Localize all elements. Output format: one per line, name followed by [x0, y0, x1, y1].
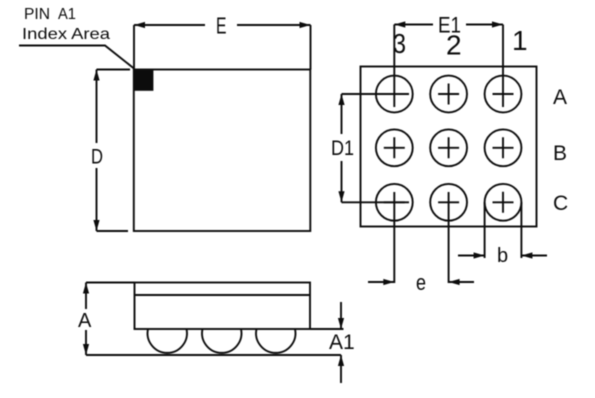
- ball A3 (top-left): [376, 76, 413, 113]
- svg-text:2: 2: [446, 30, 462, 61]
- dimension D1 arrow down: [338, 191, 344, 202]
- ball C2: [430, 184, 467, 221]
- ball C3 cross horizontal arm: [384, 201, 405, 203]
- ball A1 (top-right): [485, 76, 522, 113]
- ball C2 cross horizontal arm: [438, 201, 459, 203]
- ball C1 (bottom-right): [485, 184, 522, 221]
- dimension e arrow left (pointing right): [383, 279, 394, 285]
- dimension A1 arrow up (at seating plane): [338, 355, 344, 366]
- svg-text:A: A: [553, 86, 567, 109]
- dimension E arrow left: [134, 22, 145, 28]
- dimension b arrow left (pointing right): [474, 252, 485, 258]
- ball A2 cross: [438, 84, 459, 105]
- side view ball 1: [148, 329, 187, 353]
- dimension A arrow down: [83, 344, 89, 355]
- ball B1: [485, 129, 522, 166]
- svg-text:3: 3: [393, 28, 406, 59]
- dimension D1 line lower segment: [341, 161, 343, 202]
- dimension E extension line left: [133, 25, 135, 70]
- side view ball 3: [256, 329, 295, 353]
- ball C1 cross: [493, 192, 514, 213]
- dimension e arrow right (pointing left): [449, 279, 460, 285]
- dimension A1 lower arrow line: [340, 355, 342, 383]
- dimension D1 extension line bottom (through ball C3): [342, 201, 410, 203]
- dimension E line right segment: [237, 24, 311, 26]
- ball B3 cross: [384, 137, 405, 158]
- ball A1 horizontal cross arm: [493, 93, 514, 95]
- side view lid line: [135, 294, 311, 296]
- dimension e extension line left (through ball C3): [393, 192, 395, 283]
- dimension A extension line top: [86, 282, 135, 284]
- dimension E arrow right: [300, 22, 311, 28]
- svg-text:A1: A1: [329, 331, 355, 354]
- ball B3: [376, 129, 413, 166]
- side view ball 2: [202, 329, 241, 353]
- dimension b arrow line left: [458, 255, 485, 257]
- dimension D line lower segment: [96, 168, 98, 231]
- svg-text:B: B: [553, 142, 567, 165]
- dimension D1 arrow up: [338, 94, 344, 105]
- dimension A line lower segment: [85, 330, 87, 355]
- ball B2: [430, 129, 467, 166]
- dimension D extension line bottom: [97, 230, 129, 232]
- side view body outline: [135, 283, 311, 330]
- dimension E1 extension line left (through ball A3): [393, 25, 395, 108]
- dimension E line left segment: [134, 24, 205, 26]
- svg-text:b: b: [497, 245, 508, 267]
- dimension e extension line right (through ball C2): [448, 192, 450, 283]
- dimension A arrow up: [83, 283, 89, 294]
- dimension A1 arrow down (at body bottom): [338, 318, 344, 329]
- dimension D1 extension line top (through ball A3): [342, 93, 410, 95]
- dimension e arrow line left: [368, 281, 394, 283]
- dimension A line upper segment: [85, 283, 87, 310]
- dimension b extension line left (tangent of ball C1): [484, 202, 486, 258]
- ball C3 (bottom-left): [376, 184, 413, 221]
- dimension E1 arrow right: [492, 21, 503, 27]
- bottom view (ball grid) outline: [361, 67, 537, 227]
- dimension E1 arrow left: [394, 21, 405, 27]
- seating plane line: [86, 354, 341, 356]
- svg-text:e: e: [416, 270, 426, 295]
- label PIN A1 / Index Area: [22, 6, 110, 43]
- top view package outline: [134, 70, 310, 232]
- dimension E1 line right segment: [466, 24, 503, 26]
- svg-text:D1: D1: [331, 137, 354, 160]
- svg-text:A1: A1: [58, 6, 76, 23]
- svg-text:1: 1: [512, 25, 528, 56]
- dimension D line upper segment: [96, 70, 98, 144]
- dimension b arrow right (pointing left): [521, 252, 532, 258]
- dimension E extension line right: [310, 25, 312, 70]
- leader line from label to index area: [19, 46, 134, 69]
- dimension E1 line left segment: [394, 24, 433, 26]
- pin A1 index area (filled black square): [134, 70, 154, 91]
- svg-text:C: C: [553, 192, 568, 215]
- svg-text:D: D: [91, 146, 103, 169]
- svg-text:A: A: [78, 310, 92, 332]
- ball B2 cross: [438, 137, 459, 158]
- dimension D arrow up: [93, 70, 99, 81]
- svg-text:Index Area: Index Area: [22, 26, 110, 43]
- dimension D arrow down: [93, 220, 99, 231]
- ball B1 cross: [493, 137, 514, 158]
- svg-text:E: E: [216, 13, 227, 39]
- svg-text:PIN: PIN: [24, 6, 50, 23]
- dimension b extension line right (tangent of ball C1): [520, 202, 522, 258]
- dimension b arrow line right: [521, 255, 547, 257]
- dimension D1 line upper segment: [341, 94, 343, 134]
- dimension e arrow line right: [449, 281, 474, 283]
- ball A2: [430, 76, 467, 113]
- dimension D extension line top: [97, 69, 131, 71]
- dimension E1 extension line right (through ball A1): [502, 25, 504, 108]
- dimension A1 upper arrow line: [340, 302, 342, 329]
- dimension A1 extension line (body bottom): [310, 328, 344, 330]
